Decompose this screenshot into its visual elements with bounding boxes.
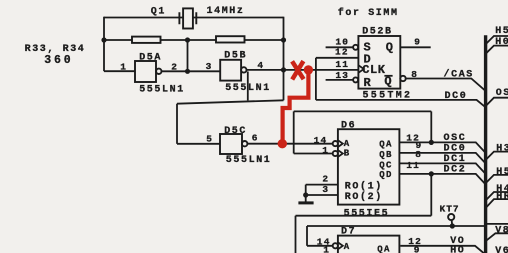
wire bus exit H5 (486, 36, 508, 44)
inverter D5A (135, 61, 162, 82)
svg-text:/CAS: /CAS (444, 69, 474, 81)
svg-text:V6: V6 (495, 246, 508, 253)
svg-text:QD: QD (379, 170, 393, 180)
ground (298, 195, 313, 204)
red node (278, 139, 287, 148)
svg-text:HO: HO (450, 246, 465, 253)
svg-text:V8: V8 (495, 225, 508, 236)
svg-text:D5B: D5B (224, 51, 247, 62)
wire /CAS (406, 79, 485, 91)
wire D6 B input (294, 153, 333, 155)
junction (303, 192, 308, 197)
svg-text:H5: H5 (496, 167, 508, 178)
connector KT7 (448, 214, 454, 226)
svg-text:H5: H5 (495, 26, 508, 37)
counter D6 (338, 129, 400, 204)
junction (101, 37, 106, 42)
wire QB pin 9 (399, 153, 485, 163)
clock triangle A (338, 140, 343, 147)
svg-text:555IE5: 555IE5 (344, 208, 390, 219)
wire stub below D5B output (247, 72, 249, 101)
wire QD pin 11 (399, 174, 485, 184)
svg-text:2: 2 (171, 62, 178, 73)
svg-text:5: 5 (206, 134, 213, 145)
wire bus exit H5 (486, 175, 508, 183)
svg-text:H0: H0 (495, 37, 508, 48)
crystal Q1 (179, 8, 196, 28)
svg-text:3: 3 (206, 61, 213, 72)
junction (281, 67, 286, 72)
wire KT7 net (307, 225, 486, 227)
svg-text:9: 9 (414, 36, 421, 47)
clock triangle (359, 65, 364, 72)
svg-text:QA: QA (379, 139, 393, 149)
svg-text:11: 11 (406, 160, 420, 171)
svg-text:QB: QB (379, 150, 393, 160)
junction (429, 140, 434, 145)
svg-text:4: 4 (257, 60, 264, 71)
wire DC2 across (296, 215, 432, 217)
inverter D5C (220, 134, 247, 154)
red cut X (292, 61, 304, 79)
junction (429, 171, 434, 176)
svg-text:DC1: DC1 (444, 154, 467, 165)
wire feedback vertical (187, 40, 189, 71)
wire D5A input (104, 70, 135, 72)
pin bubble R (353, 77, 358, 82)
svg-text:A: A (344, 139, 351, 149)
svg-text:6: 6 (252, 133, 259, 144)
counter D7 (338, 236, 400, 253)
wire D7 A vertical (306, 226, 308, 246)
wire bus exit HR (486, 199, 508, 207)
wire DC2 off bottom (295, 216, 297, 253)
wire D5C input vertical (176, 104, 178, 144)
wire bus exit OSC (486, 98, 508, 106)
inverter D5B (220, 60, 246, 81)
wire bus exit H0 (486, 46, 508, 54)
svg-text:B: B (344, 149, 351, 159)
pin bubble Qbar (400, 76, 405, 81)
resistor R33 (132, 37, 161, 43)
svg-text:8: 8 (411, 69, 418, 80)
svg-text:1: 1 (322, 145, 329, 156)
svg-text:RO(2): RO(2) (345, 191, 383, 203)
svg-text:12: 12 (335, 47, 349, 58)
svg-text:Q: Q (386, 41, 394, 55)
svg-text:Q1: Q1 (151, 7, 166, 18)
label Qbar (384, 75, 392, 89)
wire bus exit KT7 (486, 223, 508, 225)
wire D6 feedback left vertical (293, 111, 295, 153)
wire QA pin 12 (399, 142, 485, 152)
wire D5C input (177, 143, 220, 145)
svg-text:RO(1): RO(1) (345, 180, 383, 192)
wire left vertical (103, 17, 105, 71)
wire QC pin 8 (399, 163, 485, 173)
bus (484, 35, 487, 253)
wire RO(1) pin 2 (306, 184, 338, 186)
wire D7 QA pin 12 (400, 246, 484, 253)
clock triangle B (338, 150, 343, 157)
svg-text:DC2: DC2 (444, 164, 467, 175)
junction (450, 223, 455, 228)
wire top oscillator loop (104, 17, 284, 19)
wire R pin 13 (326, 79, 353, 81)
wire D6 feedback top (294, 110, 432, 112)
wire right vertical (283, 17, 285, 101)
svg-text:DC0: DC0 (444, 143, 467, 154)
clock triangle A (338, 243, 343, 250)
junction (185, 69, 190, 74)
svg-text:11: 11 (335, 59, 349, 70)
svg-text:2: 2 (322, 174, 329, 185)
svg-text:1: 1 (323, 245, 330, 253)
svg-text:D5A: D5A (139, 52, 162, 63)
svg-text:KT7: KT7 (440, 204, 460, 215)
wire resistor row (104, 39, 284, 41)
svg-text:R: R (364, 76, 372, 90)
wire bus exit H3 (486, 152, 508, 160)
wire D5B output to D52B CLK (247, 69, 359, 71)
pin bubble A (333, 141, 338, 146)
wire DC0 from D pin (316, 100, 485, 107)
svg-text:555LN1: 555LN1 (226, 155, 272, 166)
svg-text:QA: QA (377, 244, 391, 253)
svg-text:OSC: OSC (496, 88, 508, 99)
red node (304, 65, 313, 74)
red jumper wire (283, 70, 309, 144)
svg-text:H3: H3 (496, 144, 508, 155)
wire bus exit V8 (486, 233, 508, 240)
pin bubble B (333, 151, 338, 156)
svg-text:A: A (344, 242, 351, 252)
svg-text:360: 360 (44, 54, 73, 67)
svg-text:OSC: OSC (444, 133, 467, 144)
flip-flop D52B (358, 36, 400, 89)
wire loop bottom to D5C (177, 100, 284, 103)
wire S pin 10 (326, 46, 353, 48)
svg-text:DC0: DC0 (445, 91, 468, 102)
svg-text:QC: QC (379, 160, 393, 170)
svg-text:14MHz: 14MHz (207, 6, 245, 17)
wire RO(2) pin 3 (306, 194, 338, 196)
pin bubble A (333, 243, 338, 248)
wire D pin 12 (316, 57, 359, 59)
wire Q pin 9 (400, 46, 430, 48)
resistor R34 (216, 36, 245, 42)
wire D6 feedback right vertical (430, 111, 432, 142)
svg-text:9: 9 (414, 245, 421, 253)
svg-text:1: 1 (120, 61, 127, 72)
wire D7 A input (307, 245, 333, 247)
svg-text:CLK: CLK (362, 63, 386, 77)
svg-text:HR: HR (496, 191, 508, 202)
svg-text:for SIMM: for SIMM (338, 7, 399, 19)
svg-text:D5C: D5C (224, 126, 247, 137)
junction (185, 37, 190, 42)
wire D vertical (315, 58, 317, 100)
svg-text:3: 3 (322, 184, 329, 195)
wire D5A output to D5B (162, 70, 221, 72)
svg-text:8: 8 (415, 149, 422, 160)
junction (281, 37, 286, 42)
svg-text:555LN1: 555LN1 (139, 85, 185, 96)
wire D5C output to D6 A (248, 143, 333, 145)
pin bubble S (353, 45, 358, 50)
wire RO join vertical (305, 185, 307, 195)
wire DC2 down (430, 174, 432, 216)
svg-text:13: 13 (335, 70, 349, 81)
wire bus exit H4 (486, 192, 508, 200)
